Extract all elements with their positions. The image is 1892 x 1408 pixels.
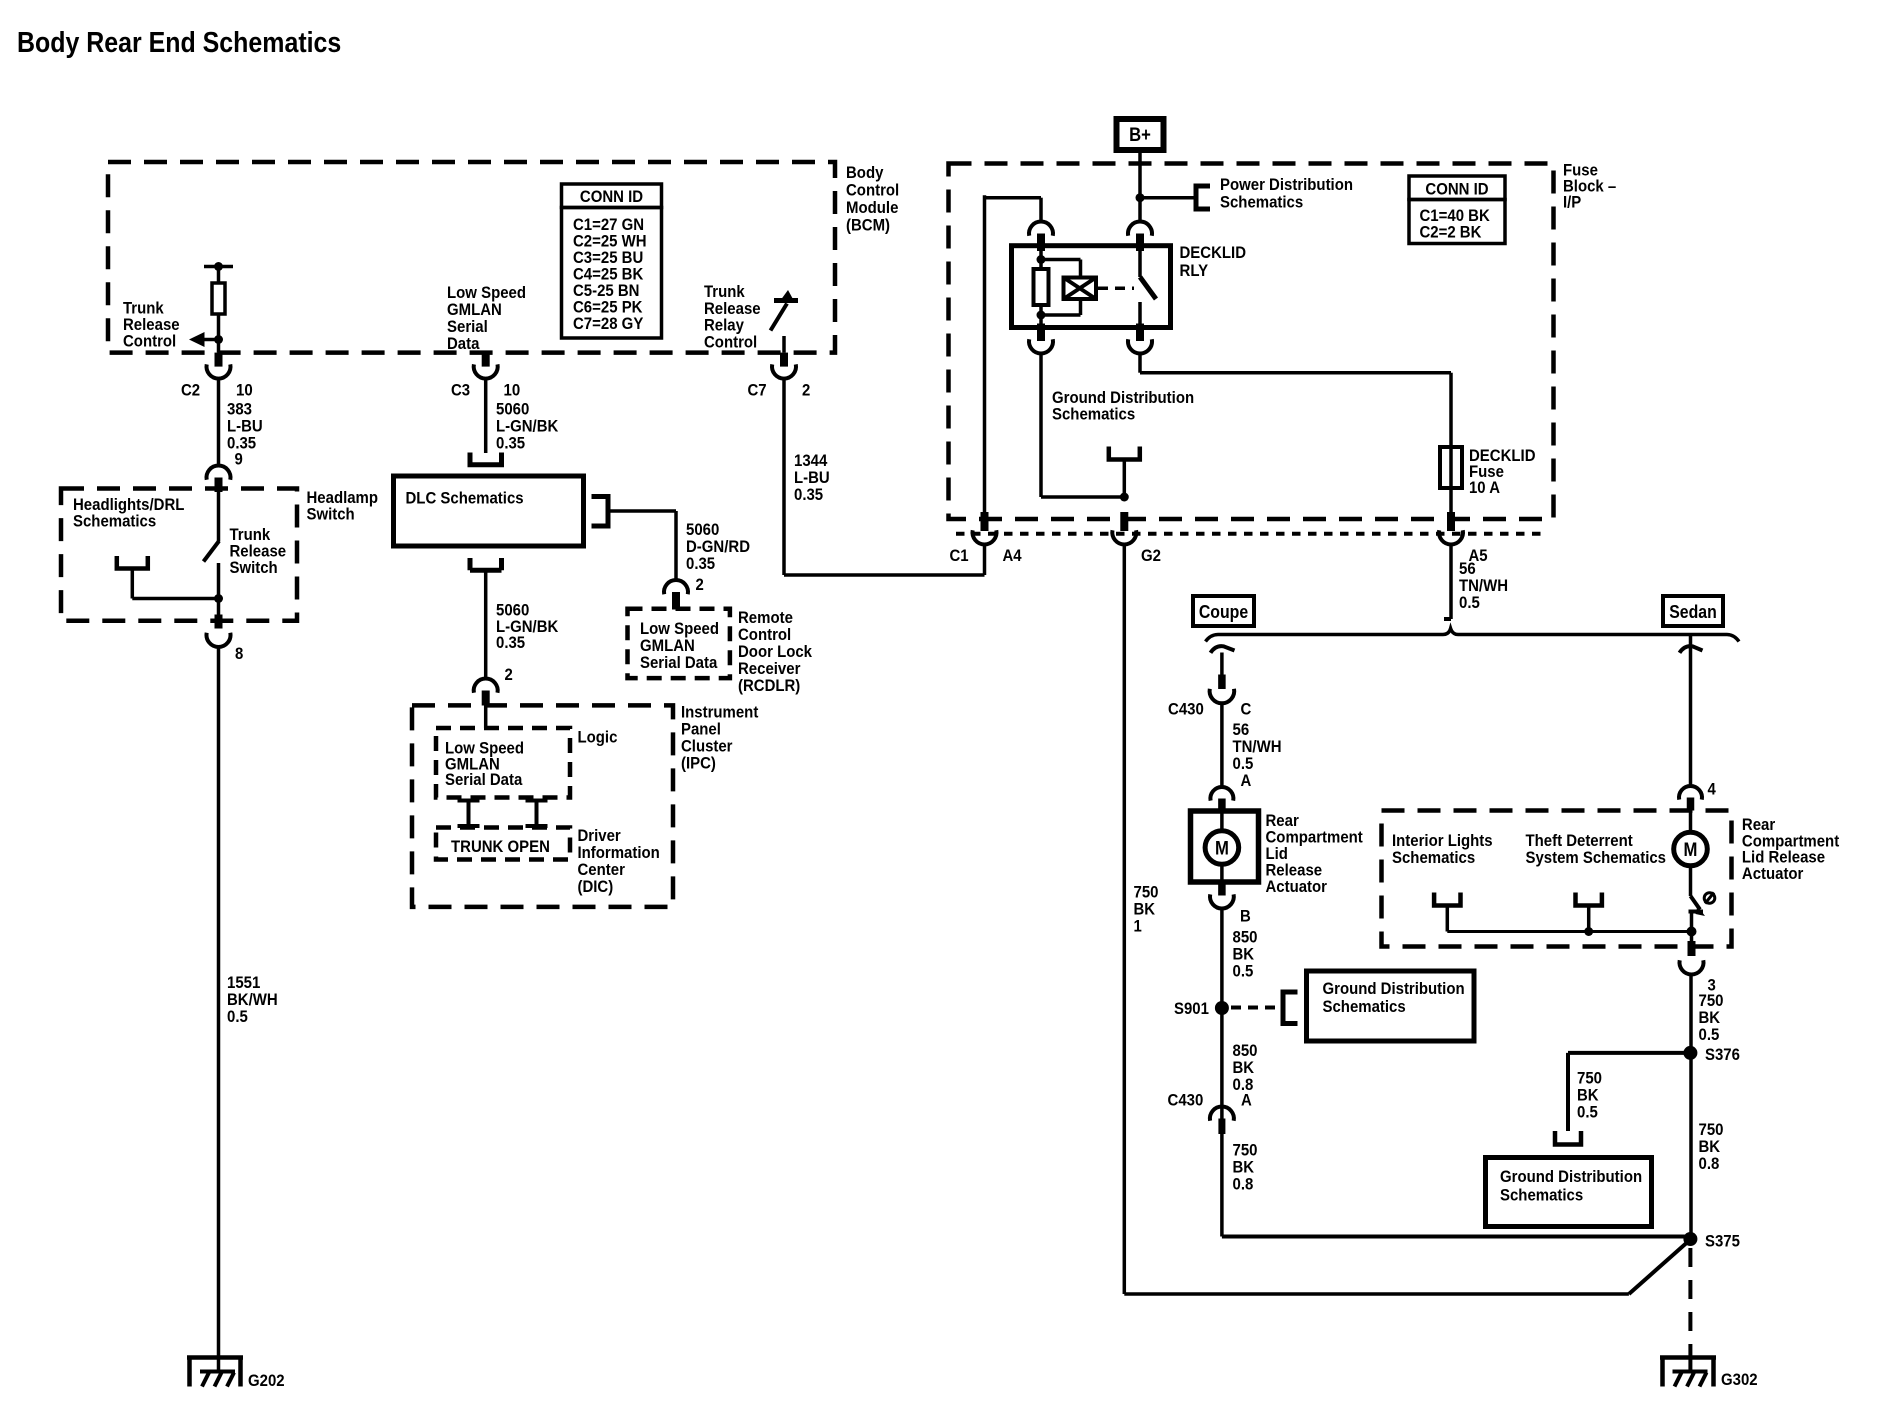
wire sedan drop <box>1680 646 1703 653</box>
relay switch contact <box>1138 251 1142 277</box>
symbol link to Power Distribution Schematics <box>1196 186 1210 209</box>
wire diagonal to G2 run <box>1629 1240 1691 1295</box>
connector C1 pin A4 <box>981 512 989 531</box>
wire 383 L-BU 0.35 <box>217 379 221 466</box>
connector C430 pin A <box>1210 1107 1234 1121</box>
svg-text:Control: Control <box>846 181 899 200</box>
node B+ tap <box>1136 193 1145 202</box>
switch trunk release <box>217 492 221 542</box>
wire splice bus brace <box>1206 629 1740 642</box>
box Ground Distribution Schematics (sedan) <box>1486 1158 1652 1227</box>
wire dashed link S901 <box>1231 1006 1278 1010</box>
wire tap to power distribution symbol <box>1140 196 1196 200</box>
wire relay 30 to fuse <box>1138 354 1142 373</box>
svg-text:Power Distribution: Power Distribution <box>1220 175 1353 194</box>
svg-text:Switch: Switch <box>307 505 355 524</box>
svg-text:Serial Data: Serial Data <box>640 653 718 672</box>
switch sedan actuator <box>1689 866 1693 896</box>
connector sedan actuator pin 4 <box>1679 786 1702 800</box>
node G2 junction <box>1120 493 1129 502</box>
wire coupe run to S375 <box>1222 1235 1691 1239</box>
wire 5060 D-GN/RD 0.35 <box>608 509 676 513</box>
svg-text:DECKLID: DECKLID <box>1180 243 1247 262</box>
fuse DECKLID 10A <box>1440 447 1462 488</box>
relay actuation dashed link <box>1098 287 1134 291</box>
label box Coupe <box>1193 596 1254 626</box>
svg-text:System Schematics: System Schematics <box>1526 848 1667 867</box>
svg-text:C3: C3 <box>451 381 470 400</box>
svg-text:C2: C2 <box>181 381 200 400</box>
svg-text:Schematics: Schematics <box>1323 997 1406 1016</box>
table CONN ID (BCM) <box>562 184 662 208</box>
connector RCDLR pin 2 <box>664 580 688 594</box>
wire to trunk release switch <box>132 597 218 601</box>
svg-text:Data: Data <box>447 334 480 353</box>
svg-text:DLC Schematics: DLC Schematics <box>406 489 524 508</box>
svg-text:TRUNK OPEN: TRUNK OPEN <box>451 837 550 856</box>
symbol link to Interior Lights Schematics <box>1434 893 1460 906</box>
svg-text:G2: G2 <box>1141 546 1161 565</box>
node sedan actuator junction <box>1687 927 1697 937</box>
block Low Speed GMLAN Serial Data (IPC logic) dashed <box>436 728 570 798</box>
wire actuator internal bus <box>1447 930 1691 933</box>
motor M (sedan) <box>1689 811 1693 833</box>
svg-text:(RCDLR): (RCDLR) <box>738 676 800 695</box>
pin DLC right port <box>592 497 609 527</box>
wire A4 to BCM C7 <box>983 545 987 576</box>
svg-text:Logic: Logic <box>578 728 618 747</box>
svg-text:A: A <box>1241 771 1252 790</box>
wire 56 TN/WH 0.5 <box>1449 545 1453 620</box>
svg-text:I/P: I/P <box>1563 193 1581 212</box>
wire S376 ground branch <box>1568 1051 1690 1055</box>
module BCM dashed box <box>108 162 835 353</box>
power feed B+ <box>1117 119 1164 150</box>
wire 5060 L-GN/BK 0.35 (to DLC) <box>484 379 488 453</box>
svg-text:C: C <box>1241 700 1252 719</box>
wire 750 BK 0.5 (sedan) <box>1689 975 1693 1237</box>
svg-text:0.35: 0.35 <box>686 554 715 573</box>
svg-text:(BCM): (BCM) <box>846 216 890 235</box>
svg-text:Serial Data: Serial Data <box>445 770 523 789</box>
ground G302 <box>1660 1355 1716 1360</box>
svg-text:B+: B+ <box>1129 125 1151 146</box>
connector relay pin 87 <box>1037 324 1045 342</box>
svg-text:0.5: 0.5 <box>1577 1103 1598 1122</box>
connector rear actuator pin B <box>1218 882 1226 896</box>
svg-text:Control: Control <box>123 332 176 351</box>
svg-text:8: 8 <box>235 644 243 663</box>
box Ground Distribution Schematics (S901) <box>1307 971 1475 1041</box>
link bars logic to DIC <box>467 800 471 828</box>
connector IPC pin 2 <box>474 679 498 693</box>
svg-text:0.35: 0.35 <box>794 485 823 504</box>
symbol link to Headlights/DRL Schematics <box>117 556 148 569</box>
wire relay coil feed (left route) <box>985 196 1042 200</box>
svg-text:C430: C430 <box>1168 1091 1204 1110</box>
svg-text:RLY: RLY <box>1180 261 1209 280</box>
svg-text:CONN ID: CONN ID <box>1425 180 1488 199</box>
svg-text:Ground Distribution: Ground Distribution <box>1323 979 1465 998</box>
svg-text:Schematics: Schematics <box>1392 848 1475 867</box>
connector relay pin 86 <box>1029 222 1053 236</box>
component DLC Schematics box <box>470 453 502 465</box>
symbol link to Ground Distribution Schematics (S901) <box>1283 992 1298 1024</box>
svg-text:S901: S901 <box>1174 999 1209 1018</box>
node junction arrow tap <box>214 335 223 344</box>
svg-text:Schematics: Schematics <box>73 512 156 531</box>
splice S376 <box>1683 1046 1697 1060</box>
svg-text:Body Rear End Schematics: Body Rear End Schematics <box>17 27 341 59</box>
svg-text:Sedan: Sedan <box>1669 602 1717 622</box>
splice S901 <box>1215 1001 1229 1015</box>
wire 1551 BK/WH 0.5 to ground <box>217 647 221 1372</box>
svg-text:G302: G302 <box>1721 1370 1758 1389</box>
connector C7 pin 2 <box>780 353 788 367</box>
svg-text:C7=28 GY: C7=28 GY <box>573 314 644 333</box>
svg-text:0.35: 0.35 <box>496 633 525 652</box>
svg-text:C430: C430 <box>1168 700 1204 719</box>
ground G202 <box>187 1355 243 1360</box>
svg-text:4: 4 <box>1708 780 1717 799</box>
resistor trunk release control (BCM internal) <box>204 265 233 269</box>
wire 850 BK 0.5 <box>1220 909 1224 1237</box>
table CONN ID (fuse block) <box>1409 176 1505 200</box>
wire 750 BK 1 (G2 ground run) <box>1123 545 1127 1295</box>
wire 56 TN/WH 0.5 (coupe) <box>1220 704 1224 787</box>
symbol link to Ground Distribution Schematics (S376) <box>1555 1131 1581 1145</box>
symbol link to Theft Deterrent System Schematics <box>1576 893 1602 906</box>
module Fuse Block I/P dashed box <box>949 164 1554 520</box>
svg-text:B: B <box>1240 907 1251 926</box>
wire coupe drop <box>1220 653 1224 675</box>
relay DECKLID RLY box <box>1012 246 1171 328</box>
svg-text:0.5: 0.5 <box>1233 962 1254 981</box>
svg-text:2: 2 <box>802 381 810 400</box>
switch trunk release relay control (BCM internal) <box>774 298 798 303</box>
relay coil winding (X box) <box>1041 258 1081 262</box>
node switch junction <box>214 594 223 603</box>
svg-text:Schematics: Schematics <box>1220 193 1303 212</box>
symbol link to Ground Distribution Schematics <box>1109 447 1140 460</box>
connector C2 pin 10 <box>215 353 223 367</box>
svg-text:Schematics: Schematics <box>1500 1185 1583 1204</box>
wire dashed to ground G302 <box>1688 1248 1692 1352</box>
svg-text:0.5: 0.5 <box>1459 593 1480 612</box>
svg-text:Ground Distribution: Ground Distribution <box>1500 1167 1642 1186</box>
connector C3 pin 10 <box>482 353 490 367</box>
wire resistor to BCM edge <box>217 314 221 353</box>
svg-text:0.35: 0.35 <box>496 434 525 453</box>
motor M (coupe) <box>1205 831 1239 865</box>
connector sedan actuator pin 3 <box>1690 932 1694 943</box>
block TRUNK OPEN dashed <box>436 828 570 860</box>
svg-text:A4: A4 <box>1003 546 1023 565</box>
module RCDLR dashed box <box>628 609 730 678</box>
svg-text:Actuator: Actuator <box>1266 877 1328 896</box>
connector rear actuator pin A <box>1210 787 1233 801</box>
svg-text:(IPC): (IPC) <box>681 754 716 773</box>
svg-text:CONN ID: CONN ID <box>580 187 643 206</box>
connector G2 <box>1120 512 1128 531</box>
wire pin to logic block <box>484 705 488 728</box>
connector coupe drop hook <box>1211 646 1235 653</box>
arrow trunk release control output <box>204 338 219 342</box>
connector A5 <box>1447 512 1455 531</box>
svg-text:10: 10 <box>236 381 253 400</box>
svg-text:S375: S375 <box>1705 1232 1740 1251</box>
svg-text:0.8: 0.8 <box>1699 1154 1720 1173</box>
svg-text:A: A <box>1241 1091 1252 1110</box>
connector relay pin 85 <box>1128 222 1152 236</box>
connector face dotted line <box>956 532 1548 536</box>
connector in-line 8 <box>215 615 223 629</box>
svg-text:S376: S376 <box>1705 1045 1740 1064</box>
wire 1344 L-BU 0.35 <box>782 379 786 575</box>
svg-text:9: 9 <box>235 450 243 469</box>
svg-text:Actuator: Actuator <box>1742 864 1804 883</box>
label box Sedan <box>1663 596 1723 626</box>
module IPC dashed box <box>412 705 673 907</box>
svg-text:Body: Body <box>846 163 884 182</box>
svg-text:Switch: Switch <box>230 558 278 577</box>
svg-text:Coupe: Coupe <box>1199 602 1248 622</box>
svg-text:0.5: 0.5 <box>1699 1025 1720 1044</box>
svg-text:C7: C7 <box>748 381 767 400</box>
wire 5060 L-GN/BK 0.35 (DLC to IPC) <box>484 570 488 678</box>
svg-text:Control: Control <box>704 332 757 351</box>
svg-text:Schematics: Schematics <box>1052 405 1135 424</box>
svg-text:C2=2 BK: C2=2 BK <box>1420 223 1483 242</box>
connector C430 pin C <box>1218 675 1226 690</box>
svg-text:1: 1 <box>1134 917 1142 936</box>
svg-text:M: M <box>1684 840 1698 861</box>
svg-text:2: 2 <box>696 575 704 594</box>
svg-text:0.8: 0.8 <box>1233 1175 1254 1194</box>
svg-text:M: M <box>1215 839 1229 860</box>
svg-text:C1: C1 <box>950 546 969 565</box>
module theft deterrent dashed box <box>1382 811 1732 947</box>
wire relay 87 to G2 <box>1039 354 1043 497</box>
splice S375 <box>1683 1232 1697 1246</box>
wire B+ to relay <box>1138 153 1142 222</box>
component Rear Compartment Lid Release Actuator (coupe) <box>1191 811 1259 882</box>
relay coil resistor <box>1039 251 1043 269</box>
svg-text:10 A: 10 A <box>1469 478 1500 497</box>
svg-text:0.5: 0.5 <box>227 1007 248 1026</box>
module Headlamp Switch dashed box <box>61 489 297 621</box>
symbol circle-slash <box>1704 893 1715 904</box>
connector relay pin 30 <box>1136 324 1144 342</box>
svg-text:G202: G202 <box>248 1371 285 1390</box>
svg-text:Module: Module <box>846 198 898 217</box>
svg-text:10: 10 <box>504 381 521 400</box>
svg-text:2: 2 <box>505 665 513 684</box>
svg-text:(DIC): (DIC) <box>578 877 614 896</box>
